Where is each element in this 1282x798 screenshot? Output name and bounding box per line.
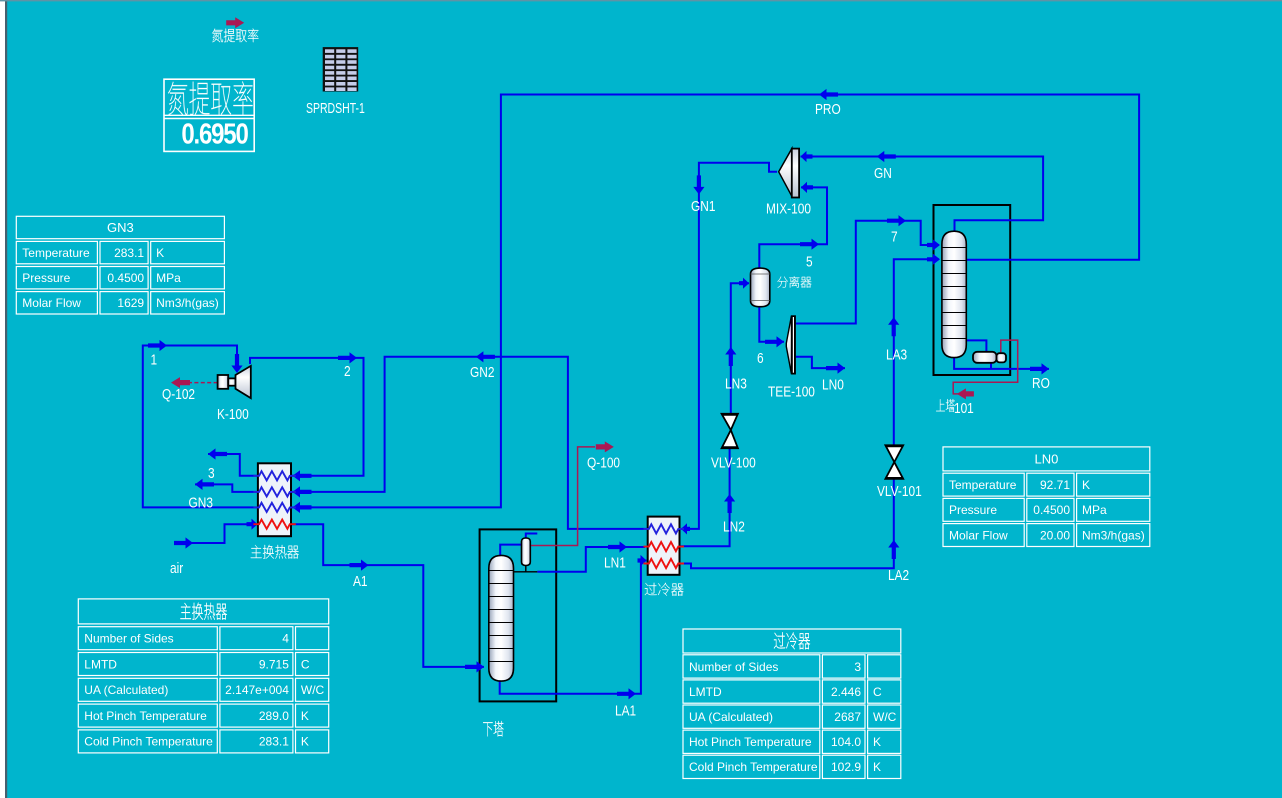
svg-text:TEE-100: TEE-100 [768,383,815,400]
svg-text:LN2: LN2 [723,518,745,535]
svg-text:2.147e+004: 2.147e+004 [225,683,289,697]
svg-text:283.1: 283.1 [259,735,289,749]
svg-text:K: K [873,760,881,774]
svg-text:Number of Sides: Number of Sides [84,632,173,646]
svg-text:K: K [873,735,881,749]
svg-text:A1: A1 [353,573,368,590]
svg-text:9.715: 9.715 [259,657,289,671]
svg-text:1629: 1629 [117,296,144,310]
svg-text:Pressure: Pressure [22,271,70,285]
svg-text:GN2: GN2 [470,364,494,381]
svg-text:LA2: LA2 [888,567,909,584]
svg-text:Molar Flow: Molar Flow [22,296,81,310]
svg-text:0.6950: 0.6950 [181,117,248,150]
svg-text:UA (Calculated): UA (Calculated) [689,710,773,724]
svg-text:K-100: K-100 [217,406,249,423]
svg-text:MIX-100: MIX-100 [766,200,811,217]
svg-text:GN: GN [874,165,892,182]
svg-text:W/C: W/C [873,710,897,724]
svg-text:7: 7 [891,228,898,245]
svg-text:2687: 2687 [834,710,861,724]
svg-text:3: 3 [854,660,861,674]
svg-text:LA1: LA1 [615,702,636,719]
svg-text:289.0: 289.0 [259,709,289,723]
svg-text:GN1: GN1 [691,198,715,215]
svg-text:283.1: 283.1 [114,246,144,260]
svg-text:PRO: PRO [815,101,841,118]
svg-text:K: K [1082,478,1090,492]
svg-text:GN3: GN3 [107,220,134,235]
svg-text:Cold Pinch Temperature: Cold Pinch Temperature [689,760,818,774]
svg-text:1: 1 [151,351,158,368]
svg-text:Temperature: Temperature [949,478,1017,492]
svg-text:Nm3/h(gas): Nm3/h(gas) [1082,528,1145,542]
svg-text:LN3: LN3 [725,375,747,392]
svg-text:Molar Flow: Molar Flow [949,528,1008,542]
svg-text:SPRDSHT-1: SPRDSHT-1 [306,99,365,116]
svg-text:K: K [301,709,309,723]
svg-text:Q-100: Q-100 [587,454,620,471]
svg-text:3: 3 [208,465,215,482]
svg-text:air: air [170,560,184,577]
svg-text:Cold Pinch Temperature: Cold Pinch Temperature [84,735,213,749]
svg-text:6: 6 [757,350,764,367]
svg-text:K: K [301,735,309,749]
svg-text:Nm3/h(gas): Nm3/h(gas) [156,296,219,310]
svg-text:0.4500: 0.4500 [1033,503,1070,517]
svg-text:LMTD: LMTD [84,657,117,671]
svg-text:2: 2 [344,363,351,380]
svg-text:VLV-100: VLV-100 [711,454,756,471]
svg-text:4: 4 [282,632,289,646]
svg-text:0.4500: 0.4500 [107,271,144,285]
svg-text:MPa: MPa [1082,503,1107,517]
svg-text:104.0: 104.0 [831,735,861,749]
svg-text:Q-102: Q-102 [162,386,195,403]
svg-text:GN3: GN3 [189,494,213,511]
svg-text:LN0: LN0 [822,376,844,393]
svg-text:LA3: LA3 [886,346,907,363]
svg-text:Number of Sides: Number of Sides [689,660,778,674]
svg-text:C: C [301,657,310,671]
svg-text:Temperature: Temperature [22,246,90,260]
svg-text:RO: RO [1032,375,1050,392]
svg-text:W/C: W/C [301,683,325,697]
svg-text:2.446: 2.446 [831,685,861,699]
svg-text:102.9: 102.9 [831,760,861,774]
svg-text:MPa: MPa [156,271,181,285]
svg-text:LN0: LN0 [1034,452,1058,467]
svg-text:VLV-101: VLV-101 [877,483,922,500]
svg-text:C: C [873,685,882,699]
svg-text:Pressure: Pressure [949,503,997,517]
svg-text:LMTD: LMTD [689,685,722,699]
svg-text:92.71: 92.71 [1040,478,1070,492]
svg-text:Hot Pinch Temperature: Hot Pinch Temperature [84,709,207,723]
svg-text:20.00: 20.00 [1040,528,1070,542]
svg-text:Hot Pinch Temperature: Hot Pinch Temperature [689,735,812,749]
svg-text:5: 5 [806,253,813,270]
svg-text:UA (Calculated): UA (Calculated) [84,683,168,697]
svg-text:LN1: LN1 [604,554,626,571]
svg-text:K: K [156,246,164,260]
